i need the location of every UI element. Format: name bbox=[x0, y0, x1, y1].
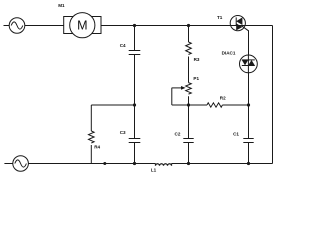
svg-text:DIAC1: DIAC1 bbox=[222, 51, 236, 56]
wire: C2 top lead bbox=[188, 105, 190, 139]
triac T1 bbox=[230, 16, 245, 31]
node: junction top R3 branch bbox=[187, 24, 190, 27]
svg-text:L1: L1 bbox=[151, 167, 157, 172]
svg-text:P1: P1 bbox=[193, 76, 199, 81]
wire: P1 bottom lead bbox=[188, 96, 190, 105]
svg-text:C3: C3 bbox=[120, 130, 126, 135]
diac DIAC1 bbox=[240, 55, 258, 73]
svg-text:C1: C1 bbox=[233, 131, 239, 136]
resistor R4 bbox=[89, 131, 95, 143]
svg-text:T1: T1 bbox=[217, 15, 223, 20]
wire: top-left stub bbox=[4, 25, 10, 27]
svg-text:C4: C4 bbox=[120, 43, 126, 48]
node: bottom junction (wire join) bbox=[103, 162, 106, 165]
wire: AC source to motor bbox=[25, 25, 64, 27]
node: C2 bottom junction bbox=[187, 162, 190, 165]
capacitor C2 bbox=[183, 139, 193, 143]
wire: R3 to P1 bbox=[188, 57, 190, 83]
node: junction R2/DIAC/C1 bbox=[247, 103, 250, 106]
svg-text:M: M bbox=[77, 19, 87, 33]
capacitor C3 bbox=[129, 139, 141, 143]
AC source V2 (bottom) bbox=[13, 156, 29, 172]
svg-text:R2: R2 bbox=[220, 96, 226, 101]
wire: bottom rail left bbox=[28, 163, 155, 165]
wire: bottom-left stub bbox=[4, 163, 12, 165]
node: junction R4 tap bbox=[133, 103, 136, 106]
wire: R4 top lead bbox=[90, 105, 92, 131]
inductor L1 bbox=[156, 164, 172, 166]
wire: C4 top lead bbox=[134, 26, 136, 51]
wire: gate diagonal bbox=[242, 26, 249, 31]
wire: wiper to junction bbox=[172, 104, 189, 106]
svg-text:M1: M1 bbox=[58, 3, 65, 8]
node: C1 bottom junction bbox=[247, 162, 250, 165]
wire: C2 bottom lead bbox=[188, 143, 190, 164]
node: C3 bottom junction bbox=[133, 162, 136, 165]
wire: R2 left lead bbox=[189, 104, 208, 106]
wire: bottom rail right bbox=[172, 163, 273, 165]
AC source V1 (top) bbox=[9, 18, 25, 34]
wire: top rail motor to right corner bbox=[101, 25, 273, 27]
wire: R3 top lead bbox=[188, 26, 190, 43]
resistor R3 bbox=[186, 42, 192, 55]
resistor R2 bbox=[207, 103, 222, 107]
wire: C1 top lead part of gate line; capacitor C1 bbox=[243, 139, 253, 143]
svg-text:R4: R4 bbox=[94, 145, 100, 150]
wire: R4 bottom lead bbox=[90, 145, 92, 164]
wire: wiper down leg bbox=[171, 88, 173, 105]
motor M1 bbox=[64, 13, 101, 38]
wire: C3 bottom lead bbox=[134, 143, 136, 164]
wire: C1 leads bbox=[248, 105, 250, 139]
svg-text:R3: R3 bbox=[194, 57, 200, 62]
node: junction P1/R2/C2 bbox=[187, 103, 190, 106]
wire: right rail bbox=[272, 26, 274, 164]
node: junction top C4 branch bbox=[133, 24, 136, 27]
capacitor C4 bbox=[129, 51, 141, 55]
wire: R2 right lead bbox=[222, 104, 248, 106]
potentiometer P1 bbox=[186, 83, 192, 95]
wire: R4 tap horizontal bbox=[91, 104, 134, 106]
wire: gate to diac and down to junction bbox=[248, 30, 250, 105]
wire: P1 wiper arm bbox=[172, 87, 182, 89]
wire: C4 to C3 bbox=[134, 55, 136, 139]
svg-text:C2: C2 bbox=[175, 131, 181, 136]
